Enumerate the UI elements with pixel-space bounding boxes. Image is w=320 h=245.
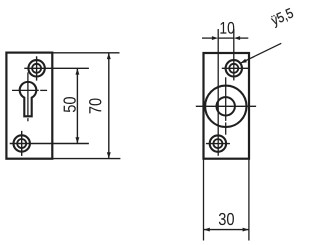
hole H4 bottom-right target: outer circle xyxy=(210,135,226,151)
dimension 50 arrow down xyxy=(75,137,79,143)
dimension text 70 xyxy=(89,98,101,113)
extension line 30 dim left xyxy=(203,159,205,241)
hole H1 top-left target: outer circle xyxy=(28,60,44,76)
dimension 70 arrow up xyxy=(107,53,111,59)
note text diameter 5,5 xyxy=(270,8,295,28)
hole H3 inner circle xyxy=(229,64,238,73)
keyhole horizontal centerline xyxy=(12,89,39,91)
big hole vertical centerline seg2 xyxy=(225,122,227,134)
hole H1 inner circle xyxy=(32,64,41,73)
hole H2 horizontal centerline + extension to 50 dim xyxy=(10,143,89,145)
extension line 30 dim right xyxy=(248,159,250,241)
left view plate outline xyxy=(6,53,52,159)
hole H4 horizontal centerline xyxy=(206,143,230,145)
extension line right of 10 dim / H3 vertical centerline xyxy=(233,29,235,80)
dimension text 50 xyxy=(63,97,75,112)
hole H2 vertical centerline xyxy=(21,131,23,156)
right view plate outline xyxy=(204,53,250,159)
hole H2 inner circle xyxy=(17,139,26,148)
big hole horizontal centerline seg3 xyxy=(235,105,256,107)
dimension 10 right outside tail xyxy=(239,37,248,39)
big hole horizontal centerline seg2 xyxy=(218,105,234,107)
dimension 30 line xyxy=(204,229,249,231)
extension line from plate bottom edge (70 dim) xyxy=(52,158,120,160)
keyhole vertical centerline xyxy=(27,72,29,116)
leader line to diameter note xyxy=(240,43,281,63)
hole H3 top-right target: outer circle xyxy=(226,60,242,76)
leader arrowhead xyxy=(240,59,247,64)
keyhole horizontal centerline dash xyxy=(40,89,47,91)
extension line left of 10 dim / H4 vertical centerline xyxy=(217,29,219,156)
dimension 70 line xyxy=(108,53,110,159)
hole H4 inner circle xyxy=(213,139,222,148)
dimension 70 arrow down xyxy=(107,152,111,158)
dimension 10 right arrow xyxy=(234,36,240,40)
dimension 10 line xyxy=(218,37,234,39)
hole H1 vertical centerline xyxy=(36,56,38,80)
big hole inner circle xyxy=(217,97,235,115)
dimension 10 left arrow xyxy=(212,36,218,40)
hole H2 bottom-left target: outer circle xyxy=(14,135,30,151)
keyhole vertical centerline dash xyxy=(27,118,29,121)
big hole horizontal centerline seg1 xyxy=(196,105,217,107)
keyhole slot outline xyxy=(20,82,37,116)
dimension 30 right arrow xyxy=(243,228,249,232)
big hole outer circle xyxy=(205,86,246,127)
dimension 50 arrow up xyxy=(75,68,79,74)
hole H3 horizontal centerline xyxy=(222,67,249,69)
dimension 50 line xyxy=(76,68,78,143)
dimension 10 left outside tail xyxy=(202,37,213,39)
dimension 30 left arrow xyxy=(204,228,210,232)
hole H1 horizontal centerline + extension to 50 dim xyxy=(24,67,89,69)
dimension text 10 xyxy=(220,22,234,34)
extension line from plate top edge (70 dim) xyxy=(52,52,119,54)
dimension text 30 xyxy=(219,213,234,225)
big hole vertical centerline seg1 xyxy=(225,77,227,121)
